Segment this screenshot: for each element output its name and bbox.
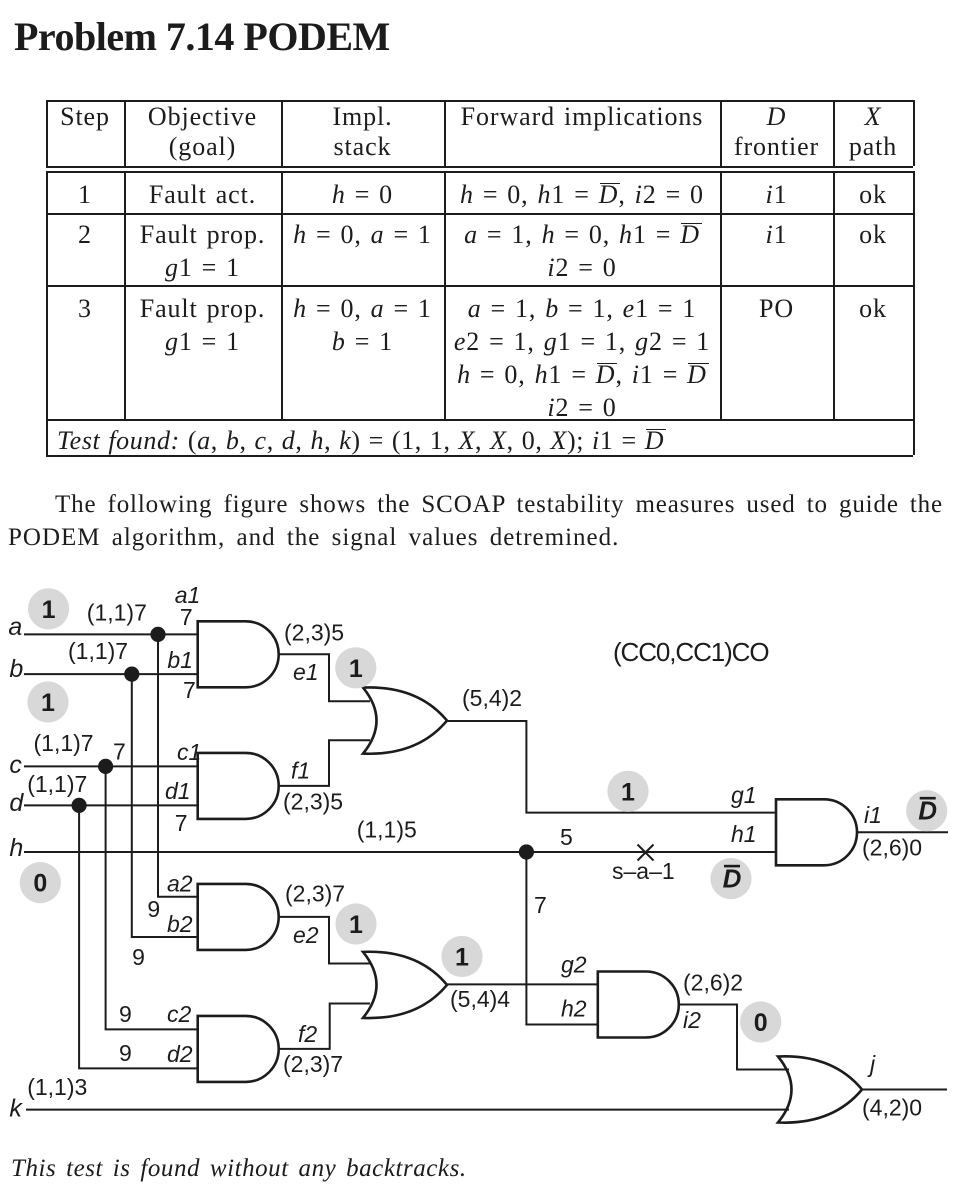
svg-text:b1: b1	[167, 647, 193, 673]
svg-text:7: 7	[183, 677, 196, 703]
AND gate U4 (c2,d2->f2)	[198, 1016, 279, 1082]
svg-text:9: 9	[147, 896, 160, 922]
value 1 at e1	[335, 647, 376, 688]
wire branch c to c2	[106, 766, 198, 1029]
svg-text:i2: i2	[683, 1007, 701, 1033]
OR gate U9 (i2,k->j)	[778, 1056, 862, 1122]
node d junction	[72, 798, 87, 813]
AND gate U6 (g2,h2->i2)	[598, 972, 679, 1038]
value 0 at i2	[740, 1001, 781, 1042]
svg-text:D: D	[723, 864, 742, 894]
svg-text:(2,6)2: (2,6)2	[683, 970, 743, 996]
svg-text:j: j	[867, 1051, 876, 1077]
svg-text:7: 7	[113, 739, 126, 765]
svg-text:a2: a2	[167, 871, 193, 897]
svg-text:7: 7	[534, 892, 547, 918]
svg-text:d2: d2	[167, 1041, 193, 1067]
svg-text:5: 5	[560, 824, 573, 850]
svg-text:(1,1)7: (1,1)7	[68, 638, 128, 664]
node b junction	[124, 667, 139, 682]
wire branch a to a2	[158, 634, 198, 896]
table: PODEM steps	[46, 100, 913, 102]
svg-text:(4,2)0: (4,2)0	[862, 1095, 922, 1121]
svg-text:1: 1	[621, 778, 635, 806]
value 1 at input b	[27, 681, 68, 722]
svg-text:(2,3)5: (2,3)5	[284, 620, 344, 646]
svg-text:s–a–1: s–a–1	[612, 858, 675, 884]
wire input a	[24, 633, 198, 635]
wire g2 from OR2 to U6	[447, 983, 598, 985]
wire h branch to h2	[526, 852, 597, 1025]
svg-text:(2,3)7: (2,3)7	[285, 881, 345, 907]
AND gate U3 (a2,b2->e2)	[198, 884, 279, 950]
svg-text:(1,1)5: (1,1)5	[357, 816, 417, 842]
svg-text:c1: c1	[177, 739, 201, 765]
node c junction	[98, 759, 113, 774]
wire e2 to OR2	[279, 917, 370, 964]
wire branch d to d2	[79, 805, 198, 1068]
svg-text:a: a	[8, 613, 22, 641]
svg-text:7: 7	[180, 604, 193, 630]
value 1 at input a	[28, 588, 69, 629]
svg-text:(5,4)2: (5,4)2	[462, 685, 522, 711]
svg-text:(1,1)7: (1,1)7	[87, 600, 147, 626]
wire f1 to OR1	[279, 740, 370, 786]
wire input k	[26, 1109, 789, 1111]
svg-text:e1: e1	[293, 659, 319, 685]
svg-text:1: 1	[455, 944, 469, 972]
svg-text:b2: b2	[167, 911, 193, 937]
value 1 at g2	[441, 936, 482, 977]
svg-text:(2,3)7: (2,3)7	[283, 1051, 343, 1077]
svg-text:(2,3)5: (2,3)5	[283, 789, 343, 815]
svg-text:0: 0	[754, 1009, 768, 1037]
svg-text:d1: d1	[165, 778, 191, 804]
wire output i1	[856, 831, 948, 833]
svg-text:(1,1)3: (1,1)3	[27, 1074, 87, 1100]
svg-text:g2: g2	[561, 952, 587, 978]
wire output j	[862, 1089, 947, 1091]
svg-text:c2: c2	[167, 1001, 192, 1027]
AND gate U5 (g1,h1->i1)	[776, 799, 857, 865]
svg-text:(5,4)4: (5,4)4	[450, 986, 510, 1012]
value 1 at e2	[335, 903, 376, 944]
svg-text:i1: i1	[864, 802, 882, 828]
svg-text:(2,6)0: (2,6)0	[862, 835, 922, 861]
svg-text:g1: g1	[731, 782, 757, 808]
svg-text:d: d	[9, 789, 24, 817]
svg-text:c: c	[9, 751, 22, 779]
svg-text:(1,1)7: (1,1)7	[34, 730, 94, 756]
svg-text:9: 9	[132, 944, 145, 970]
svg-text:(1,1)7: (1,1)7	[27, 771, 87, 797]
wire f2 to OR2	[279, 1004, 370, 1049]
svg-text:(CC0,CC1)CO: (CC0,CC1)CO	[613, 637, 768, 667]
svg-text:1: 1	[349, 655, 363, 683]
svg-text:1: 1	[349, 911, 363, 939]
wire e1 to OR1	[279, 654, 370, 701]
wire input b	[24, 673, 198, 675]
OR gate U7 (e1,f1->g1)	[363, 687, 447, 753]
svg-text:h: h	[9, 834, 23, 862]
svg-text:h1: h1	[731, 821, 757, 847]
svg-text:e2: e2	[293, 922, 319, 948]
OR gate U8 (e2,f2->g2)	[363, 952, 447, 1018]
wire input c	[24, 765, 198, 767]
svg-text:f2: f2	[298, 1021, 317, 1047]
wire g1 from OR1 to U5	[447, 721, 776, 813]
wire i2 to OR3	[678, 1005, 789, 1070]
svg-text:D: D	[918, 796, 937, 826]
value D-bar at i1	[906, 790, 947, 831]
svg-text:7: 7	[175, 810, 188, 836]
svg-text:9: 9	[119, 1001, 132, 1027]
s-a-1 fault cross on h1	[638, 845, 654, 861]
value D-bar at h1	[710, 858, 751, 899]
node h junction	[519, 844, 534, 859]
AND gate U2 (c1,d1->f1)	[198, 753, 279, 819]
svg-text:h2: h2	[561, 996, 587, 1022]
value 1 at g1	[607, 771, 648, 812]
node a junction	[150, 627, 165, 642]
AND gate U1 (a1,b1->e1)	[198, 621, 279, 687]
svg-text:0: 0	[33, 870, 47, 898]
wire input d	[24, 804, 198, 806]
svg-text:k: k	[9, 1095, 23, 1123]
wire input h	[24, 851, 776, 853]
svg-text:1: 1	[41, 689, 55, 717]
svg-text:9: 9	[119, 1040, 132, 1066]
svg-text:b: b	[9, 655, 23, 683]
value 0 at input h	[20, 862, 61, 903]
wire branch b to b2	[132, 674, 198, 937]
svg-text:f1: f1	[291, 758, 310, 784]
svg-text:1: 1	[42, 596, 56, 624]
